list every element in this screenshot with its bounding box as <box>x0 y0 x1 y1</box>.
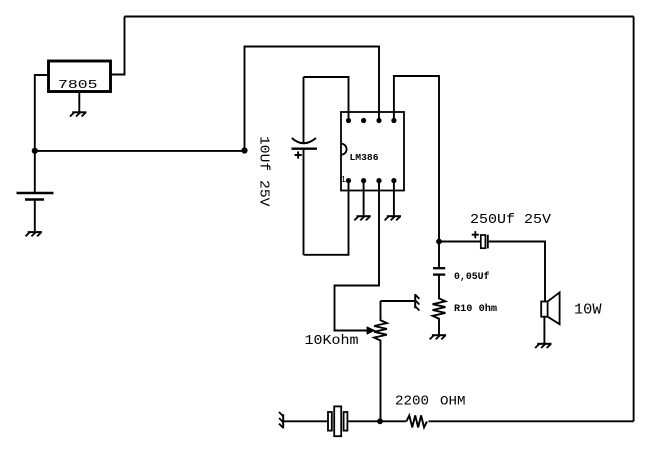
wire right border <box>633 17 635 422</box>
node output junction <box>436 239 442 245</box>
wire output node to C2 <box>439 241 480 243</box>
svg-text:7805: 7805 <box>58 78 98 92</box>
wire C2 to speaker <box>488 242 545 302</box>
wire ground to microphone <box>283 420 328 422</box>
ground <box>385 216 401 220</box>
resistor R3 2200 OHM <box>406 415 427 427</box>
pot wiper arrowhead <box>367 326 376 334</box>
ground <box>70 112 86 116</box>
node rail corner <box>241 147 247 153</box>
svg-text:OHM: OHM <box>440 393 466 408</box>
capacitor C1 10Uf <box>292 77 318 255</box>
battery B1 <box>17 151 54 231</box>
svg-text:R10 0hm: R10 0hm <box>454 303 497 315</box>
resistor R1 10 ohm <box>433 275 446 336</box>
wire node to R3 <box>381 420 407 422</box>
potentiometer R2 10Kohm <box>374 301 415 421</box>
wire IC pin 5 up and over to output node <box>394 76 439 242</box>
svg-text:10Uf 25V: 10Uf 25V <box>256 136 272 207</box>
svg-text:250Uf 25V: 250Uf 25V <box>470 213 551 228</box>
wire battery+ rail <box>35 150 245 152</box>
svg-text:1: 1 <box>341 175 346 185</box>
wire bottom rail to R3 <box>429 420 634 422</box>
wire IC pin 2 to ground <box>363 181 365 217</box>
wire top rail <box>125 16 634 18</box>
node mic junction <box>377 418 383 424</box>
svg-text:10W: 10W <box>574 303 602 319</box>
wire IC top pin 8 to cap C1 top <box>304 77 349 121</box>
ground <box>535 344 551 348</box>
capacitor C2 250Uf <box>472 231 488 248</box>
svg-text:0,05Uf: 0,05Uf <box>454 271 490 283</box>
wire 7805 output <box>111 17 125 75</box>
ground <box>26 232 42 236</box>
pin dots top row <box>346 118 397 123</box>
pin dots bottom row <box>346 178 397 183</box>
wire IC pin 4 to ground <box>393 181 395 217</box>
wire rail up and over to IC pin 6 <box>245 47 380 151</box>
wire C1 bottom to IC pin 1 <box>304 181 349 255</box>
wire output node down to C3 <box>438 242 440 269</box>
microphone MIC1 (crystal element) <box>328 406 347 436</box>
node battery+ junction <box>32 148 38 154</box>
ground <box>430 335 446 339</box>
wire IC pin 3 down to pot wiper arrow <box>335 181 380 331</box>
wire microphone to node <box>347 420 380 422</box>
svg-text:10Kohm: 10Kohm <box>305 334 359 349</box>
ground rotated right <box>415 294 419 310</box>
speaker LS1 <box>541 292 559 344</box>
ground rotated left (mic return) <box>279 412 283 428</box>
wire 7805 ground lead <box>78 92 80 113</box>
svg-text:2200: 2200 <box>395 394 429 410</box>
regulator U1 7805 <box>49 61 111 92</box>
wire 7805 input to battery+ <box>35 75 49 151</box>
ground <box>354 216 370 220</box>
IC U1 LM386 <box>341 112 404 191</box>
svg-text:LM386: LM386 <box>350 152 379 163</box>
capacitor C3 0,05Uf <box>433 268 445 274</box>
